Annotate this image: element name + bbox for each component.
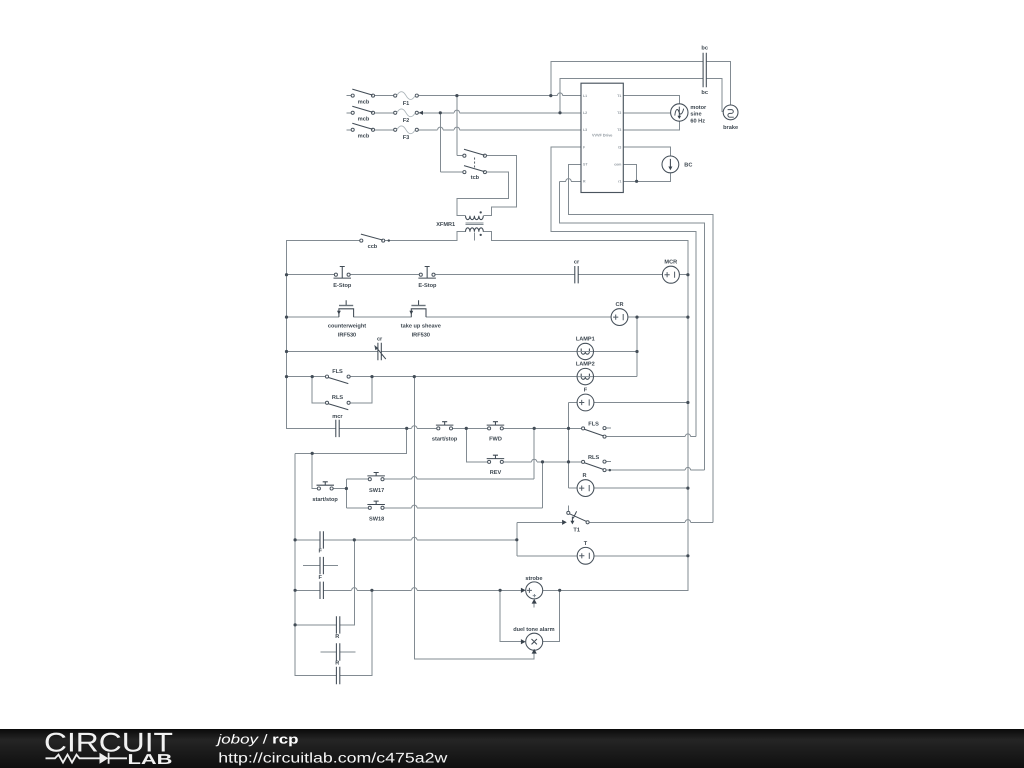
svg-text:cr: cr bbox=[574, 260, 580, 266]
svg-text:F: F bbox=[318, 575, 322, 581]
svg-text:IRF530: IRF530 bbox=[338, 333, 356, 339]
svg-text:strobe: strobe bbox=[525, 575, 542, 582]
svg-text:LAB: LAB bbox=[128, 752, 173, 768]
svg-text:LAMP1: LAMP1 bbox=[576, 336, 595, 342]
svg-text:F1: F1 bbox=[403, 101, 410, 107]
svg-text:VVVF Drive: VVVF Drive bbox=[592, 134, 612, 138]
svg-text:R: R bbox=[335, 661, 339, 667]
svg-text:take up sheave: take up sheave bbox=[401, 323, 441, 330]
svg-text:IRF530: IRF530 bbox=[412, 333, 430, 339]
svg-text:http://circuitlab.com/c475a2w: http://circuitlab.com/c475a2w bbox=[218, 750, 448, 766]
svg-text:counterweight: counterweight bbox=[328, 323, 366, 330]
svg-text:XFMR1: XFMR1 bbox=[436, 222, 455, 228]
svg-text:L2: L2 bbox=[583, 111, 587, 115]
svg-text:RLS: RLS bbox=[588, 455, 599, 461]
svg-text:REV: REV bbox=[490, 470, 502, 476]
svg-text:mcr: mcr bbox=[332, 414, 343, 420]
svg-text:E-Stop: E-Stop bbox=[418, 283, 437, 289]
svg-text:E-Stop: E-Stop bbox=[333, 283, 352, 289]
svg-text:duel tone alarm: duel tone alarm bbox=[513, 626, 554, 633]
svg-text:F3: F3 bbox=[403, 135, 410, 141]
svg-text:BC: BC bbox=[684, 163, 692, 169]
svg-text:T1: T1 bbox=[573, 528, 580, 534]
svg-text:t3: t3 bbox=[618, 145, 621, 149]
svg-text:L3: L3 bbox=[583, 128, 587, 132]
svg-text:bc: bc bbox=[701, 45, 708, 52]
svg-text:F: F bbox=[584, 388, 588, 394]
svg-text:60 Hz: 60 Hz bbox=[690, 119, 705, 125]
svg-text:FWD: FWD bbox=[489, 437, 502, 443]
svg-text:FLS: FLS bbox=[332, 369, 343, 375]
svg-text:sine: sine bbox=[690, 111, 701, 118]
svg-text:SW17: SW17 bbox=[369, 488, 384, 494]
svg-text:R: R bbox=[582, 473, 586, 479]
svg-text:brake: brake bbox=[723, 124, 738, 131]
svg-text:R: R bbox=[335, 634, 339, 640]
svg-text:F: F bbox=[318, 549, 322, 555]
svg-text:mcb: mcb bbox=[358, 133, 370, 140]
svg-text:cr: cr bbox=[377, 337, 383, 343]
svg-text:mcb: mcb bbox=[358, 116, 370, 123]
svg-text:T: T bbox=[584, 541, 588, 547]
svg-text:F2: F2 bbox=[403, 118, 410, 124]
svg-text:bc: bc bbox=[701, 89, 708, 96]
svg-text:FLS: FLS bbox=[588, 421, 599, 427]
svg-text:L1: L1 bbox=[583, 94, 587, 98]
svg-text:mcb: mcb bbox=[358, 99, 370, 106]
svg-text:com: com bbox=[614, 163, 621, 167]
svg-text:start/stop: start/stop bbox=[312, 496, 338, 503]
svg-text:tcb: tcb bbox=[471, 174, 480, 181]
svg-text:start/stop: start/stop bbox=[432, 436, 458, 443]
svg-text:CR: CR bbox=[615, 302, 623, 308]
svg-text:ccb: ccb bbox=[368, 243, 378, 250]
svg-text:LAMP2: LAMP2 bbox=[576, 362, 595, 368]
svg-text:SW18: SW18 bbox=[369, 516, 384, 522]
svg-text:T3: T3 bbox=[617, 128, 621, 132]
svg-text:T2: T2 bbox=[617, 111, 621, 115]
svg-text:r1: r1 bbox=[618, 180, 621, 184]
svg-text:RLS: RLS bbox=[332, 395, 343, 401]
svg-text:MCR: MCR bbox=[664, 259, 677, 265]
svg-text:joboy / rcp: joboy / rcp bbox=[215, 732, 299, 747]
svg-text:motor: motor bbox=[690, 105, 707, 111]
svg-text:T1: T1 bbox=[617, 94, 621, 98]
